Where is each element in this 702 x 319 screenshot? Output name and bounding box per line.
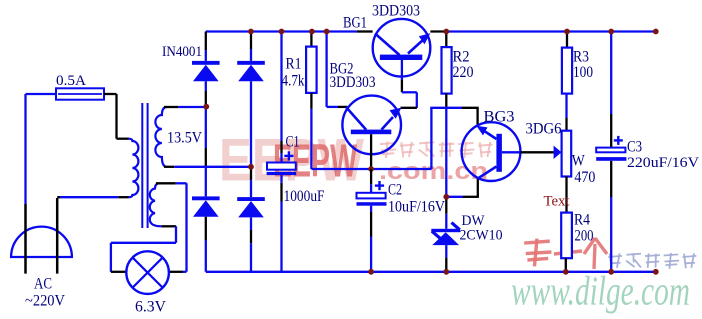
svg-text:R2: R2 bbox=[453, 49, 470, 66]
svg-text:R1: R1 bbox=[286, 56, 302, 73]
svg-text:R4: R4 bbox=[574, 212, 590, 229]
svg-text:10uF/16V: 10uF/16V bbox=[388, 199, 445, 216]
svg-text:220: 220 bbox=[453, 64, 474, 81]
svg-text:C3: C3 bbox=[627, 138, 642, 155]
svg-text:470: 470 bbox=[574, 169, 595, 186]
svg-text:www.dilge.com: www.dilge.com bbox=[511, 268, 690, 314]
svg-text:6.3V: 6.3V bbox=[135, 298, 166, 315]
svg-text:100: 100 bbox=[573, 64, 593, 81]
svg-text:DW: DW bbox=[462, 213, 486, 229]
svg-text:C1: C1 bbox=[286, 134, 300, 151]
svg-text:13.5V: 13.5V bbox=[167, 130, 202, 147]
svg-text:C2: C2 bbox=[388, 182, 402, 199]
svg-text:4.7k: 4.7k bbox=[282, 73, 305, 90]
svg-text:BG1: BG1 bbox=[343, 15, 367, 32]
svg-text:~220V: ~220V bbox=[25, 293, 65, 310]
svg-text:IN4001: IN4001 bbox=[162, 44, 202, 60]
svg-text:R3: R3 bbox=[573, 49, 589, 66]
svg-text:3DD303: 3DD303 bbox=[330, 74, 376, 91]
svg-text:1000uF: 1000uF bbox=[284, 188, 325, 205]
svg-text:0.5A: 0.5A bbox=[56, 73, 86, 89]
svg-text:3DG6: 3DG6 bbox=[526, 121, 562, 138]
svg-text:AC: AC bbox=[34, 276, 52, 293]
svg-text:Text: Text bbox=[544, 194, 571, 210]
svg-text:W: W bbox=[572, 153, 586, 170]
svg-text:2CW10: 2CW10 bbox=[460, 228, 503, 244]
svg-text:BG3: BG3 bbox=[484, 109, 515, 126]
svg-text:220uF/16V: 220uF/16V bbox=[627, 155, 699, 171]
svg-text:3DD303: 3DD303 bbox=[372, 3, 420, 20]
svg-text:200: 200 bbox=[575, 228, 594, 245]
